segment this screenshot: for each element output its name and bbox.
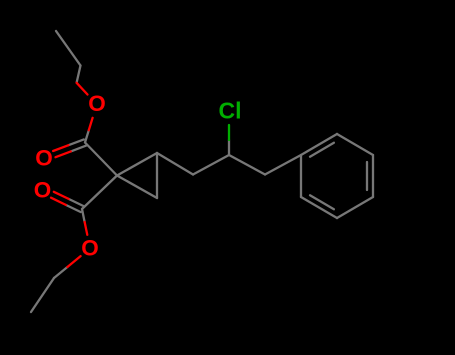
bond C3-Cl bbox=[228, 140, 230, 155]
bond C3-C5 bbox=[229, 155, 265, 175]
benzene ring bbox=[301, 134, 337, 155]
bond CH2-CH3 bottom ethyl bbox=[31, 278, 54, 312]
bond O-C carbonyl top bbox=[85, 130, 89, 142]
cyclopropane ring bbox=[117, 153, 157, 176]
bond CH3-CH2 (top ethyl) bbox=[56, 31, 81, 66]
svg-text:O: O bbox=[88, 91, 106, 116]
bond C4-C3 bbox=[193, 155, 229, 175]
svg-text:Cl: Cl bbox=[219, 98, 242, 124]
bond O-CH2 bottom ethyl bbox=[54, 267, 67, 278]
bond C2-Cq bbox=[82, 176, 117, 210]
bond V2-C4 bbox=[157, 153, 193, 175]
bond CH2-O ester top bbox=[77, 66, 81, 83]
aromatic inner bonds bbox=[310, 143, 334, 157]
double bond C2=O bottom bbox=[69, 199, 84, 206]
svg-text:O: O bbox=[81, 236, 99, 261]
bond C2-O ester bottom bbox=[82, 209, 85, 222]
bond C5-ipso bbox=[265, 155, 301, 175]
svg-text:O: O bbox=[35, 146, 53, 171]
svg-text:O: O bbox=[34, 178, 52, 203]
double bond C1=O top bbox=[69, 139, 84, 145]
bond C1-Cq bbox=[85, 143, 117, 176]
